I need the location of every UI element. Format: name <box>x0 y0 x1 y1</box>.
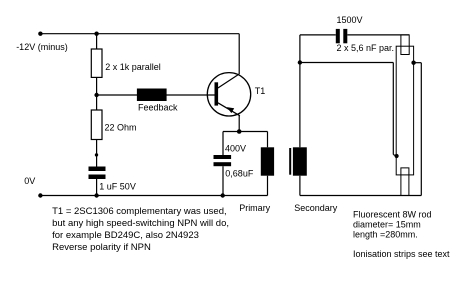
wire C3 to tube electrode <box>347 34 409 36</box>
svg-text:2 x 1k parallel: 2 x 1k parallel <box>105 62 161 72</box>
wire right ionisation strip horizontal <box>414 62 422 64</box>
svg-text:1500V: 1500V <box>337 15 363 25</box>
svg-text:2 x 5,6 nF par.: 2 x 5,6 nF par. <box>337 43 395 53</box>
junction node emitter <box>237 129 242 134</box>
svg-text:T1: T1 <box>255 86 266 96</box>
wire left ionisation strip horizontal <box>300 62 393 64</box>
terminal dot 0V <box>38 193 42 197</box>
svg-text:Reverse polarity if NPN: Reverse polarity if NPN <box>52 242 151 253</box>
svg-text:Feedback: Feedback <box>138 102 178 112</box>
wire R1 bottom to base node <box>96 77 98 95</box>
transistor T1 base bar <box>215 82 219 105</box>
svg-text:Secondary: Secondary <box>294 203 338 213</box>
wire primary bottom <box>267 176 269 196</box>
wire R2 bottom to C1 <box>96 140 98 167</box>
svg-text:-12V (minus): -12V (minus) <box>16 42 68 52</box>
resistor R2 22 Ohm <box>91 110 102 140</box>
junction node R1 top <box>94 32 98 36</box>
wire secondary top rail <box>300 34 336 36</box>
transistor T1 emitter arrow <box>227 107 234 113</box>
right ionisation strip <box>420 63 422 196</box>
svg-text:for example BD249C, also 2N492: for example BD249C, also 2N4923 <box>52 230 199 241</box>
svg-text:Fluorescent 8W rod: Fluorescent 8W rod <box>353 209 432 219</box>
wire collector drop <box>238 34 240 74</box>
capacitor C2 0,68uF 400V <box>214 155 232 166</box>
left ionisation strip <box>392 63 394 155</box>
wire 0V rail <box>40 195 267 197</box>
wire primary top <box>267 132 269 148</box>
wire base <box>97 94 215 96</box>
fluorescent tube outline <box>396 46 413 175</box>
svg-text:400V: 400V <box>225 143 246 153</box>
junction node C1 bottom <box>94 193 98 197</box>
wire top rail -12V <box>40 33 239 35</box>
transformer core <box>289 148 291 175</box>
capacitor C3 2x5,6nF 1500V <box>336 29 348 43</box>
tube bottom electrode <box>401 168 409 196</box>
terminal dot -12V <box>38 32 42 36</box>
wire C1 bottom <box>96 179 98 196</box>
junction node base <box>94 93 98 97</box>
svg-text:length =280mm.: length =280mm. <box>353 230 418 240</box>
wire emitter node horizontal <box>223 131 268 133</box>
svg-text:but any high speed-switching N: but any high speed-switching NPN will do… <box>52 218 229 229</box>
wire secondary bottom rail <box>300 195 421 197</box>
transistor T1 emitter diagonal <box>218 103 240 116</box>
svg-text:diameter= 15mm: diameter= 15mm <box>353 219 421 229</box>
wire C2 bottom <box>222 166 224 195</box>
junction node secondary strip tap <box>298 60 302 64</box>
resistor R1 2x1k parallel <box>91 49 102 77</box>
wire secondary top <box>299 35 301 147</box>
resistor feedback <box>138 89 167 100</box>
transformer primary winding <box>261 147 274 175</box>
transformer secondary winding <box>293 147 307 175</box>
transistor T1 collector diagonal <box>218 74 239 88</box>
svg-text:0,68uF: 0,68uF <box>225 169 254 179</box>
wire emitter <box>238 116 240 132</box>
wire C2 top <box>222 132 224 156</box>
svg-text:T1 = 2SC1306 complementary was: T1 = 2SC1306 complementary was used, <box>52 206 227 217</box>
wire R1 top <box>96 34 98 49</box>
svg-text:0V: 0V <box>24 176 35 186</box>
junction node right strip contact <box>411 61 415 65</box>
left strip contact link <box>393 155 396 157</box>
junction node C2 bottom <box>221 193 225 197</box>
svg-text:1 uF 50V: 1 uF 50V <box>99 181 136 191</box>
transistor T1 circle <box>207 73 250 116</box>
wire secondary bottom <box>299 176 301 196</box>
junction node above C1 <box>95 153 98 156</box>
tube top electrode <box>401 35 409 55</box>
svg-text:Primary: Primary <box>239 203 270 213</box>
svg-text:22 Ohm: 22 Ohm <box>105 122 137 132</box>
svg-text:Ionisation strips see text: Ionisation strips see text <box>353 249 450 259</box>
capacitor C1 1uF 50V <box>89 167 106 180</box>
wire base node to R2 <box>96 95 98 110</box>
junction node left strip contact <box>395 154 399 158</box>
